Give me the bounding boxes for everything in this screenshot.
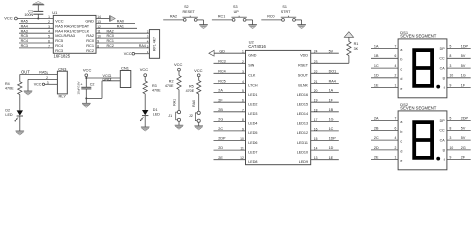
svg-text:RC4: RC4 — [218, 69, 225, 73]
svg-text:R1: R1 — [354, 42, 359, 46]
svg-text:CC: CC — [439, 129, 445, 133]
svg-text:VCC: VCC — [140, 67, 149, 72]
svg-text:RC5: RC5 — [218, 80, 225, 84]
svg-text:1: 1 — [48, 15, 50, 19]
svg-text:1DP: 1DP — [329, 137, 337, 141]
svg-text:RA2: RA2 — [170, 15, 177, 19]
svg-text:VCC: VCC — [194, 68, 203, 73]
svg-text:RC1: RC1 — [218, 15, 225, 19]
svg-text:10: 10 — [450, 74, 454, 78]
svg-text:R5: R5 — [189, 84, 194, 88]
svg-text:2: 2 — [395, 74, 397, 78]
svg-text:LED16: LED16 — [297, 93, 308, 97]
svg-text:LED6: LED6 — [248, 141, 257, 145]
svg-text:RC0: RC0 — [267, 15, 274, 19]
svg-text:RSET: RSET — [298, 64, 309, 68]
svg-text:2: 2 — [110, 77, 112, 81]
svg-text:RC2: RC2 — [107, 44, 114, 48]
svg-text:UP: UP — [234, 10, 240, 14]
svg-text:RC4: RC4 — [21, 39, 28, 43]
svg-text:LTCH: LTCH — [248, 84, 258, 88]
svg-text:2E: 2E — [374, 156, 379, 160]
svg-text:1: 1 — [46, 71, 48, 75]
svg-text:9: 9 — [450, 84, 452, 88]
svg-text:2DP: 2DP — [218, 137, 226, 141]
svg-text:RC3: RC3 — [218, 59, 225, 63]
svg-text:RA0: RA0 — [117, 20, 124, 24]
svg-text:R4: R4 — [5, 82, 10, 86]
svg-text:b: b — [400, 130, 402, 134]
svg-text:g: g — [443, 76, 445, 80]
svg-text:LED13: LED13 — [297, 122, 308, 126]
svg-text:S3: S3 — [233, 5, 238, 9]
svg-text:R2: R2 — [169, 80, 174, 84]
svg-text:VCC: VCC — [124, 52, 132, 56]
svg-text:f: f — [444, 158, 445, 162]
svg-text:7: 7 — [395, 117, 397, 121]
svg-text:2G: 2G — [218, 118, 223, 122]
svg-text:SEVEN SEGMENT: SEVEN SEGMENT — [400, 33, 437, 38]
svg-text:J2: J2 — [189, 114, 193, 118]
svg-text:LED8: LED8 — [248, 160, 257, 164]
svg-text:2B: 2B — [218, 108, 223, 112]
svg-text:470E: 470E — [5, 87, 14, 91]
svg-text:RA1: RA1 — [172, 99, 176, 106]
svg-text:RP1 4K7: RP1 4K7 — [152, 37, 156, 51]
svg-text:4: 4 — [395, 136, 397, 140]
svg-text:VCC: VCC — [174, 62, 183, 67]
svg-text:GD: GD — [219, 49, 225, 53]
svg-text:RA4: RA4 — [329, 80, 336, 84]
svg-text:2: 2 — [46, 76, 48, 80]
svg-text:1C: 1C — [374, 64, 379, 68]
svg-text:1D: 1D — [374, 74, 379, 78]
svg-text:VDD: VDD — [300, 54, 308, 58]
svg-text:OUT: OUT — [21, 69, 30, 74]
svg-text:4: 4 — [395, 64, 397, 68]
svg-text:1C: 1C — [329, 127, 334, 131]
svg-text:1: 1 — [395, 156, 397, 160]
svg-text:7: 7 — [395, 45, 397, 49]
svg-text:2D: 2D — [218, 146, 223, 150]
svg-text:6: 6 — [395, 54, 397, 58]
svg-text:LED11: LED11 — [297, 141, 308, 145]
svg-text:LED15: LED15 — [297, 103, 308, 107]
svg-text:2: 2 — [395, 146, 397, 150]
svg-text:1B: 1B — [374, 54, 379, 58]
svg-text:C2: C2 — [90, 82, 95, 86]
svg-text:RA5: RA5 — [21, 20, 28, 24]
svg-text:LED: LED — [5, 113, 13, 117]
svg-text:SOUT: SOUT — [298, 74, 309, 78]
svg-text:VCC: VCC — [83, 67, 92, 72]
svg-text:RC0: RC0 — [107, 34, 114, 38]
svg-text:VCC: VCC — [4, 15, 13, 20]
svg-text:CAT4016: CAT4016 — [248, 44, 266, 49]
svg-text:2E: 2E — [218, 156, 223, 160]
svg-text:d: d — [400, 77, 402, 81]
svg-text:2C: 2C — [374, 136, 379, 140]
svg-text:10uF/16V: 10uF/16V — [76, 81, 80, 94]
svg-text:LED10: LED10 — [297, 150, 308, 154]
svg-text:LED: LED — [153, 113, 161, 117]
svg-text:d: d — [400, 149, 402, 153]
svg-text:CC: CC — [439, 57, 445, 61]
svg-text:1E: 1E — [374, 84, 379, 88]
svg-text:LED4: LED4 — [248, 122, 257, 126]
svg-text:c: c — [400, 140, 402, 144]
svg-text:5V: 5V — [461, 64, 466, 68]
svg-text:CA: CA — [440, 138, 446, 142]
svg-text:a: a — [400, 48, 402, 52]
svg-text:RLY: RLY — [59, 93, 67, 98]
svg-text:5V: 5V — [461, 126, 466, 130]
svg-text:3K: 3K — [354, 47, 359, 51]
svg-text:1A: 1A — [329, 89, 334, 93]
svg-text:g: g — [443, 148, 445, 152]
svg-text:1F: 1F — [461, 84, 466, 88]
svg-text:470E: 470E — [186, 89, 195, 93]
svg-text:10: 10 — [450, 146, 454, 150]
svg-text:2DP: 2DP — [461, 117, 469, 121]
svg-text:BLNK: BLNK — [298, 84, 308, 88]
svg-text:LED5: LED5 — [248, 131, 257, 135]
svg-text:RA2: RA2 — [107, 29, 114, 33]
svg-text:CLK: CLK — [248, 74, 256, 78]
svg-text:RC3: RC3 — [55, 48, 63, 53]
svg-text:2B: 2B — [374, 126, 379, 130]
svg-text:c: c — [400, 68, 402, 72]
svg-text:470E: 470E — [165, 84, 174, 88]
svg-text:1G: 1G — [329, 118, 334, 122]
svg-text:8: 8 — [450, 54, 452, 58]
svg-text:CN3: CN3 — [58, 66, 67, 71]
svg-text:1B: 1B — [329, 108, 334, 112]
svg-text:RESET: RESET — [183, 10, 196, 14]
svg-text:e: e — [400, 87, 402, 91]
svg-text:LED9: LED9 — [299, 160, 308, 164]
svg-text:U1: U1 — [52, 10, 58, 15]
svg-text:RA0: RA0 — [192, 100, 196, 107]
svg-text:1DP: 1DP — [461, 45, 469, 49]
svg-text:5: 5 — [450, 117, 452, 121]
svg-text:2A: 2A — [374, 117, 379, 121]
svg-text:1F: 1F — [329, 98, 334, 102]
svg-text:8: 8 — [450, 126, 452, 130]
svg-text:LED7: LED7 — [248, 150, 257, 154]
svg-text:1D: 1D — [329, 146, 334, 150]
svg-text:a: a — [400, 120, 402, 124]
svg-text:f: f — [444, 86, 445, 90]
svg-text:LED2: LED2 — [248, 103, 257, 107]
svg-text:RC2: RC2 — [86, 48, 94, 53]
svg-text:5V: 5V — [329, 49, 334, 53]
svg-text:DO1: DO1 — [329, 69, 337, 73]
svg-text:6: 6 — [395, 126, 397, 130]
svg-text:CA: CA — [440, 66, 446, 70]
svg-text:GND: GND — [248, 54, 257, 58]
svg-text:LED1: LED1 — [248, 93, 257, 97]
svg-text:2D: 2D — [374, 146, 379, 150]
svg-text:LED3: LED3 — [248, 112, 257, 116]
svg-text:D2: D2 — [5, 109, 10, 113]
svg-text:STRT: STRT — [281, 10, 291, 14]
svg-text:9: 9 — [450, 156, 452, 160]
svg-text:2F: 2F — [461, 156, 466, 160]
svg-text:SEVEN SEGMENT: SEVEN SEGMENT — [400, 105, 437, 110]
svg-text:e: e — [400, 159, 402, 163]
svg-text:2F: 2F — [218, 98, 223, 102]
svg-text:3: 3 — [47, 81, 49, 85]
svg-text:RA3: RA3 — [21, 29, 28, 33]
svg-text:J1: J1 — [168, 114, 172, 118]
svg-text:2G: 2G — [461, 146, 466, 150]
svg-text:RC3: RC3 — [21, 44, 28, 48]
svg-text:2C: 2C — [218, 127, 223, 131]
svg-text:S2: S2 — [184, 5, 189, 9]
svg-text:470E: 470E — [152, 88, 161, 92]
svg-text:5V: 5V — [461, 54, 466, 58]
svg-text:DP: DP — [440, 119, 446, 123]
svg-text:RC1: RC1 — [107, 39, 114, 43]
svg-text:3: 3 — [450, 64, 452, 68]
svg-text:3: 3 — [450, 136, 452, 140]
svg-text:1E: 1E — [329, 156, 334, 160]
svg-text:DP: DP — [440, 47, 446, 51]
svg-text:RC5: RC5 — [21, 34, 28, 38]
svg-text:100N: 100N — [24, 13, 33, 17]
svg-text:5V: 5V — [461, 136, 466, 140]
svg-text:RA4: RA4 — [139, 44, 146, 48]
svg-text:RA1: RA1 — [117, 24, 124, 28]
svg-text:SIN: SIN — [248, 64, 254, 68]
svg-text:CN1: CN1 — [121, 66, 130, 71]
svg-text:RA4: RA4 — [21, 24, 28, 28]
svg-text:LED12: LED12 — [297, 131, 308, 135]
svg-text:1A: 1A — [374, 45, 379, 49]
svg-text:LED14: LED14 — [297, 112, 308, 116]
svg-text:1G: 1G — [461, 74, 466, 78]
svg-text:R3: R3 — [152, 84, 157, 88]
svg-text:2A: 2A — [218, 89, 223, 93]
svg-text:5: 5 — [450, 45, 452, 49]
svg-text:S1: S1 — [282, 5, 287, 9]
svg-text:VCC: VCC — [34, 82, 42, 86]
svg-text:1: 1 — [395, 84, 397, 88]
svg-text:16F1825: 16F1825 — [54, 54, 71, 59]
svg-text:b: b — [400, 58, 402, 62]
svg-text:D1: D1 — [153, 108, 158, 112]
